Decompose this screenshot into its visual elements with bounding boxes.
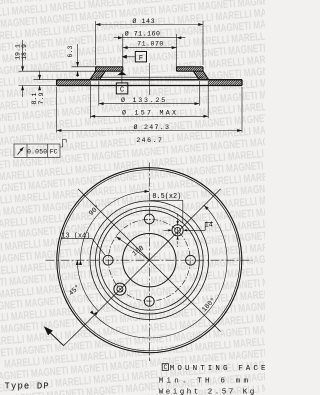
svg-text:MOUNTING FACE: MOUNTING FACE <box>170 365 265 373</box>
hatch right ring <box>203 80 247 86</box>
section axis centreline <box>148 63 150 95</box>
svg-text:14: 14 <box>205 221 213 229</box>
runout tolerance frame 0.050 FC <box>14 144 60 157</box>
label 13 x4 bolt holes <box>61 238 106 255</box>
svg-text:FC: FC <box>50 148 58 155</box>
angle dimension 180 deg <box>95 205 228 338</box>
svg-text:8.5(x2): 8.5(x2) <box>152 193 181 201</box>
dimension 6.3 <box>72 44 96 77</box>
hatch right cone <box>185 71 216 80</box>
dimension dia 157 MAX <box>90 81 208 118</box>
dimension dia 143 <box>96 21 203 65</box>
svg-text:Weight 2.57 Kg: Weight 2.57 Kg <box>159 389 257 395</box>
bolt circle dimension 108 <box>116 237 149 261</box>
section viewing direction arrow <box>50 332 78 346</box>
dimension 19.1/18.9 overall height <box>19 40 96 97</box>
svg-text:18.9: 18.9 <box>21 44 28 60</box>
svg-text:C: C <box>163 364 167 371</box>
svg-text:13 (x4): 13 (x4) <box>61 232 90 240</box>
hatch left ring <box>51 80 95 86</box>
four wheel bolt holes dia 13 <box>103 214 195 306</box>
note C mounting face <box>162 364 168 371</box>
svg-text:8.1: 8.1 <box>31 93 38 105</box>
hatch right flange <box>172 67 206 71</box>
dimension 71.070 <box>123 46 177 49</box>
svg-text:71.070: 71.070 <box>137 41 164 48</box>
label 14 <box>205 222 213 230</box>
locating hole dia 8.5 NE <box>164 214 206 248</box>
svg-text:Min. TH 6 mm: Min. TH 6 mm <box>159 377 251 385</box>
locating hole dia 8.5 SW <box>114 283 126 295</box>
datum F box <box>127 52 147 62</box>
svg-text:Ø 133.25: Ø 133.25 <box>121 96 167 104</box>
label 8.5 x2 <box>151 200 184 223</box>
svg-text:7.9: 7.9 <box>38 93 45 105</box>
dimension dia 71.160 <box>114 34 186 67</box>
horizontal centreline <box>46 259 253 261</box>
hat and friction face circles <box>90 201 209 320</box>
svg-text:Ø 157 MAX: Ø 157 MAX <box>122 108 178 116</box>
dimension 8.1/7.9 disc thickness <box>34 71 57 91</box>
dimension dia 133.25 <box>99 81 200 106</box>
svg-text:F: F <box>139 55 143 63</box>
hatch left cone <box>82 71 113 80</box>
svg-text:6.3: 6.3 <box>67 46 74 58</box>
svg-text:Ø 71.160: Ø 71.160 <box>125 29 161 37</box>
dimension dia 247.3 / 246.7 <box>57 87 242 133</box>
svg-text:Type DP: Type DP <box>5 381 50 391</box>
vertical centreline <box>148 163 150 362</box>
svg-text:Ø 247.3: Ø 247.3 <box>134 123 171 131</box>
hatch left flange <box>91 67 127 71</box>
diagonal centrelines <box>78 189 221 332</box>
svg-text:246.7: 246.7 <box>136 137 163 144</box>
hub bore circle <box>123 234 176 287</box>
svg-text:Ø 143: Ø 143 <box>132 17 155 25</box>
friction ring section outline <box>57 80 242 86</box>
svg-text:C: C <box>120 87 125 95</box>
svg-text:0.050: 0.050 <box>27 148 47 155</box>
angle dimension 45 deg <box>77 260 98 311</box>
bolt circle dia 108 centreline <box>108 219 190 301</box>
hub hat flange section outline <box>90 67 209 80</box>
angle dimension 90 deg <box>81 191 150 260</box>
outer diameter circles <box>57 168 242 353</box>
background edge line under hat <box>96 76 203 78</box>
datum C box <box>116 75 128 94</box>
